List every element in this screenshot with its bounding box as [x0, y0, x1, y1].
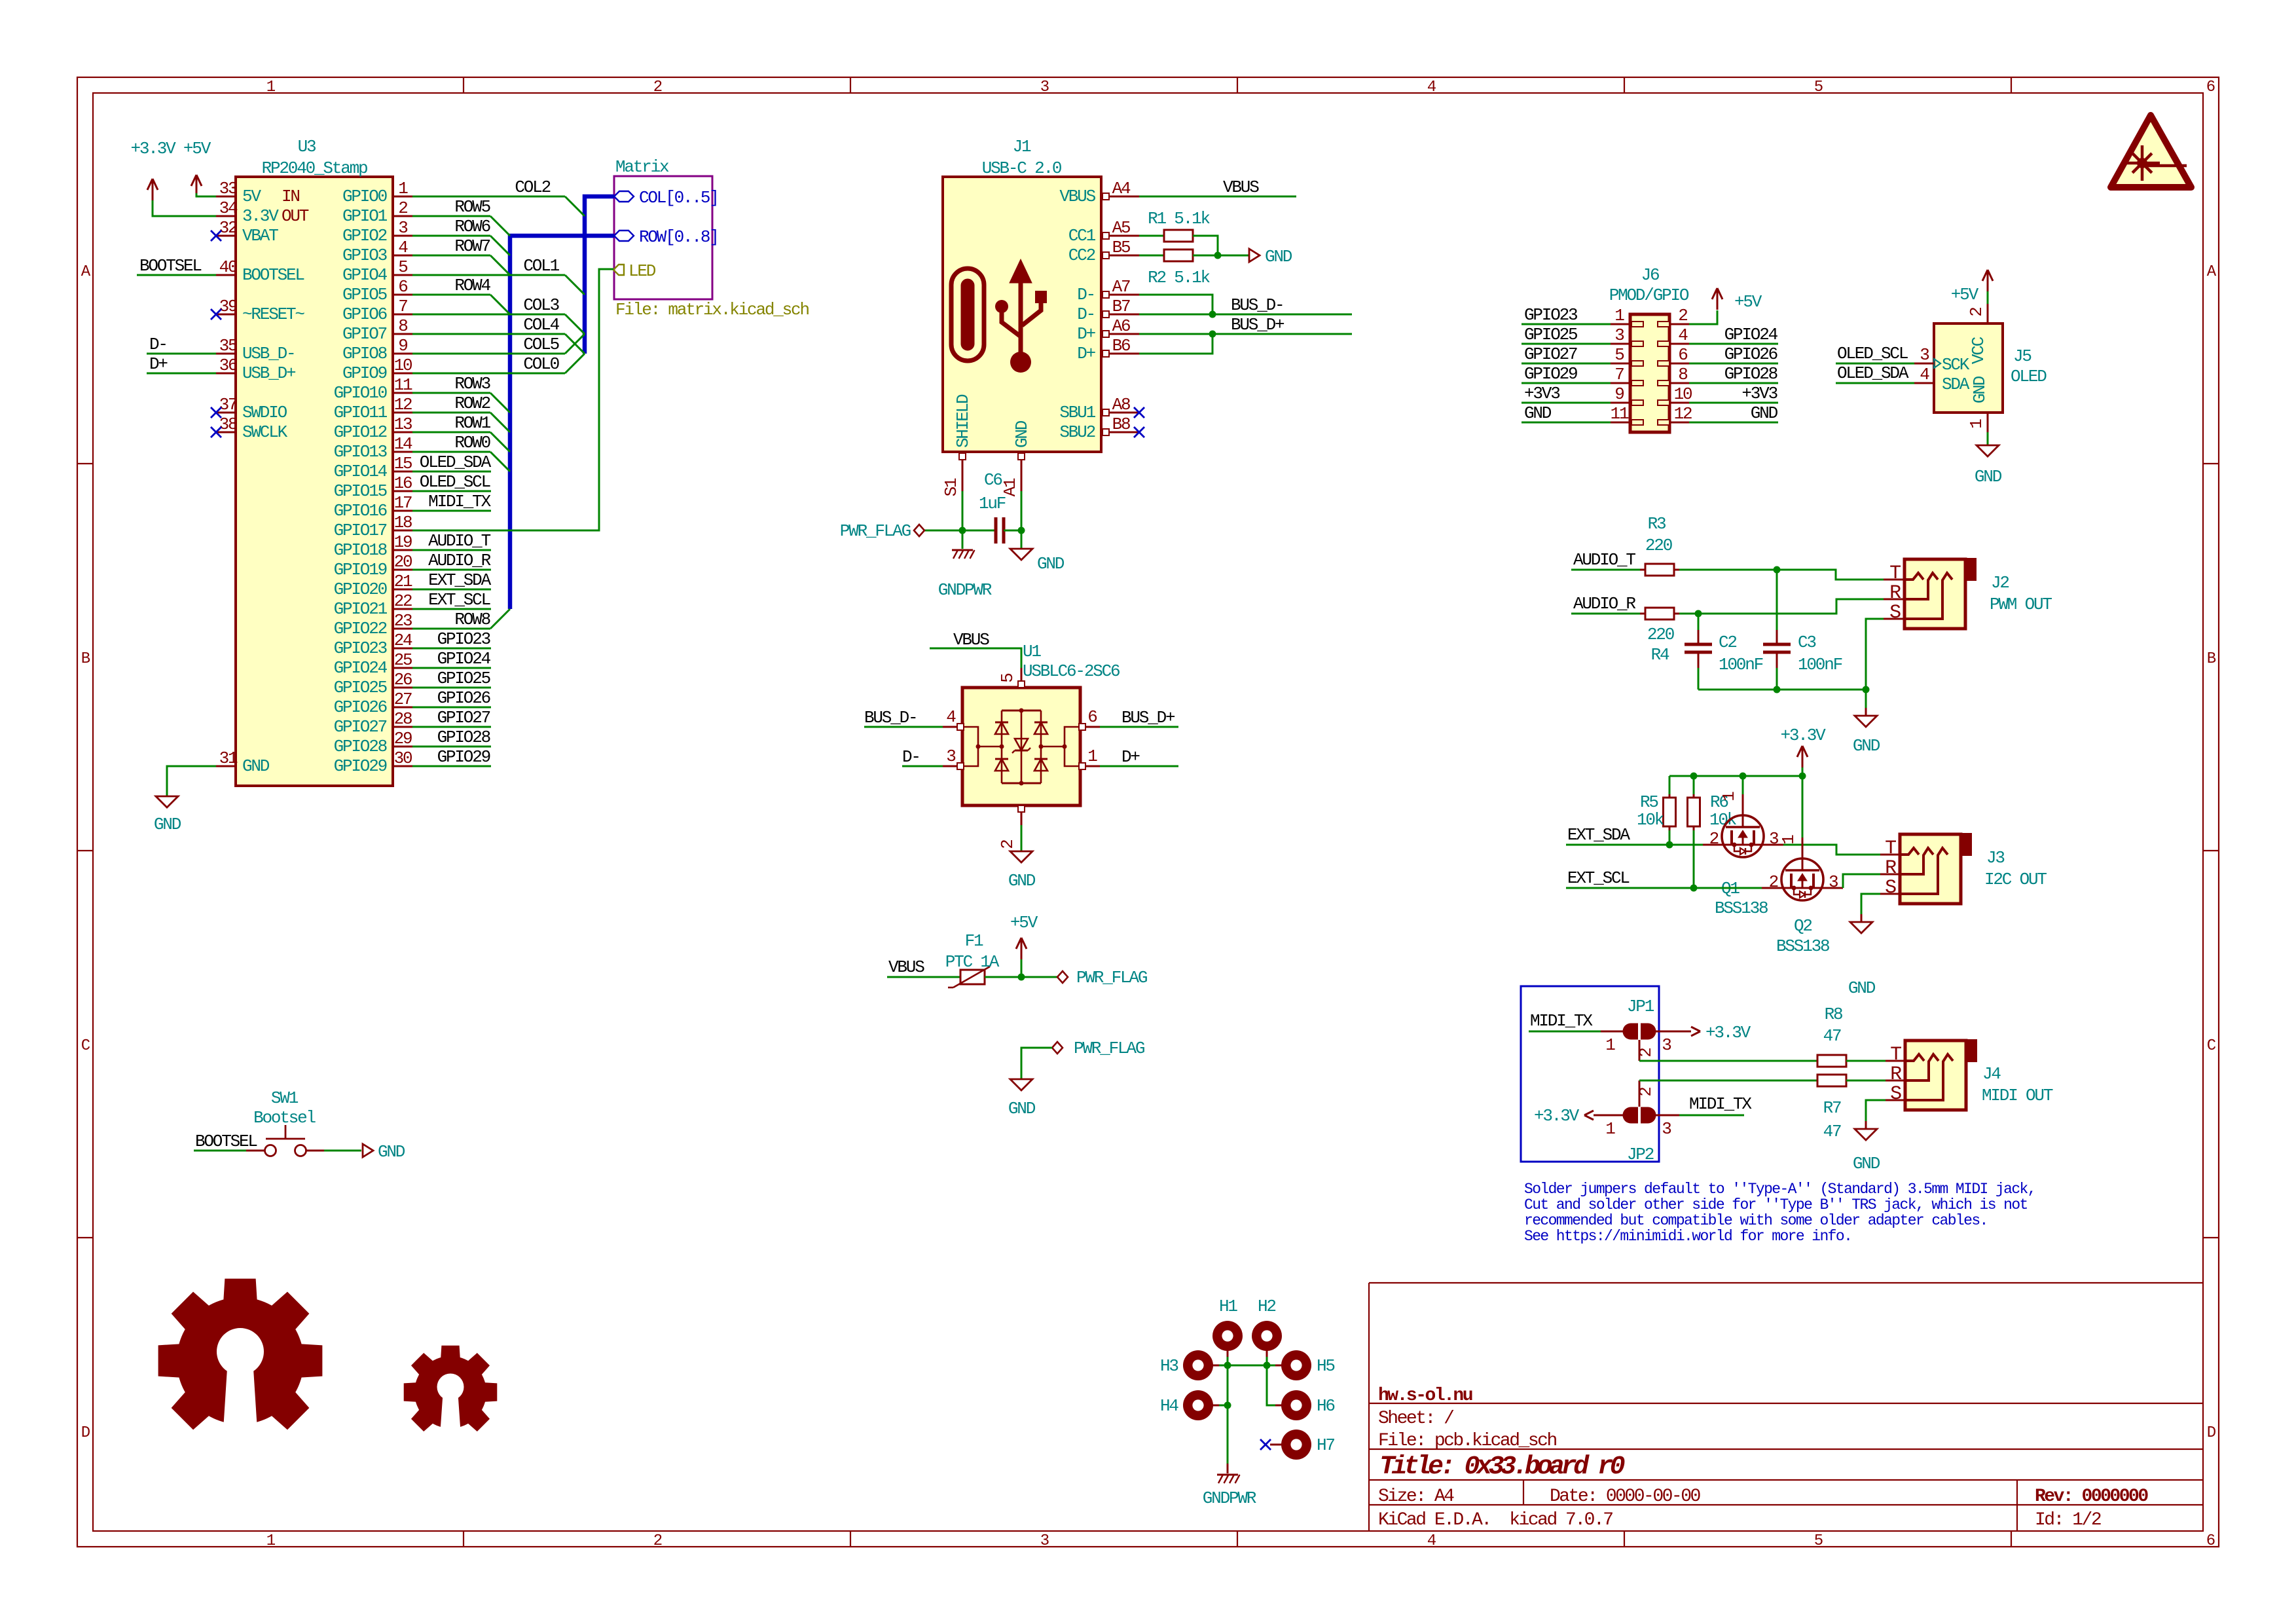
- svg-text:GND: GND: [242, 756, 270, 776]
- svg-text:33: 33: [219, 179, 237, 198]
- solder jumper JP1: [1601, 997, 1700, 1061]
- svg-text:D-: D-: [1077, 285, 1095, 304]
- svg-text:U1: U1: [1023, 642, 1041, 661]
- svg-text:PWR_FLAG: PWR_FLAG: [840, 521, 911, 541]
- svg-text:USBLC6-2SC6: USBLC6-2SC6: [1023, 661, 1120, 681]
- svg-text:R: R: [1885, 857, 1897, 879]
- svg-text:GND: GND: [1853, 1154, 1880, 1173]
- svg-text:GPIO23: GPIO23: [437, 629, 490, 649]
- wire EXT_SDA (U3 pin 21): [412, 570, 492, 590]
- svg-text:J2: J2: [1991, 573, 2009, 593]
- svg-text:F1: F1: [965, 931, 983, 951]
- junction rail Q1: [1740, 773, 1747, 780]
- svg-text:PMOD/GPIO: PMOD/GPIO: [1609, 286, 1689, 305]
- ground symbol GND (U3 pin 31): [154, 766, 216, 834]
- wire D+ from U1 pin 1: [1100, 747, 1178, 767]
- svg-text:GPIO3: GPIO3: [342, 246, 387, 265]
- svg-text:D+: D+: [1077, 344, 1095, 363]
- svg-text:AUDIO_R: AUDIO_R: [1573, 594, 1635, 614]
- power flag PWR_FLAG (GND): [1021, 1039, 1144, 1079]
- svg-text:GPIO27: GPIO27: [1524, 344, 1577, 364]
- svg-text:20: 20: [394, 552, 412, 572]
- svg-text:H2: H2: [1258, 1297, 1275, 1316]
- svg-text:ROW8: ROW8: [454, 610, 490, 629]
- svg-text:OLED_SDA: OLED_SDA: [420, 452, 492, 472]
- svg-text:1: 1: [1719, 792, 1739, 802]
- svg-text:BSS138: BSS138: [1715, 898, 1768, 918]
- svg-text:GPIO25: GPIO25: [437, 669, 490, 688]
- wire EXT_SCL to Q2: [1566, 868, 1781, 888]
- svg-text:35: 35: [219, 336, 237, 356]
- svg-text:Solder jumpers default to ''Ty: Solder jumpers default to ''Type-A'' (St…: [1524, 1181, 2035, 1198]
- svg-text:GPIO23: GPIO23: [1524, 305, 1577, 325]
- svg-text:SWDIO: SWDIO: [242, 403, 287, 422]
- svg-text:R: R: [1890, 1063, 1902, 1086]
- wire GPIO23 net label (U3 pin 24): [412, 629, 491, 649]
- svg-text:+5V: +5V: [183, 139, 211, 158]
- svg-text:25: 25: [394, 650, 412, 670]
- power symbol +5V (J5 VCC): [1951, 270, 1993, 304]
- svg-text:GPIO29: GPIO29: [437, 747, 490, 767]
- svg-text:GPIO1: GPIO1: [342, 206, 388, 226]
- svg-text:D+: D+: [1077, 324, 1095, 344]
- svg-text:GPIO28: GPIO28: [1724, 364, 1777, 384]
- svg-text:GND: GND: [1975, 467, 2002, 487]
- junction H2 rail: [1264, 1362, 1271, 1369]
- svg-text:+3.3V: +3.3V: [1534, 1106, 1580, 1126]
- svg-text:Date: 0000-00-00: Date: 0000-00-00: [1550, 1486, 1701, 1507]
- sheet pin LED: [613, 261, 656, 281]
- OSHW logo large gear: [158, 1279, 322, 1445]
- svg-text:GND: GND: [1751, 403, 1778, 423]
- svg-text:JP2: JP2: [1627, 1145, 1654, 1164]
- svg-text:USB_D+: USB_D+: [242, 363, 296, 383]
- no-connect SBU1: [1134, 407, 1144, 418]
- svg-text:D: D: [2207, 1424, 2216, 1442]
- mounting hole H5: [1275, 1350, 1334, 1380]
- svg-text:GPIO24: GPIO24: [334, 658, 388, 678]
- svg-text:GPIO22: GPIO22: [334, 619, 387, 638]
- svg-text:220: 220: [1647, 625, 1674, 644]
- wire OLED_SCL to J5: [1836, 344, 1914, 363]
- no-connect H7: [1260, 1439, 1271, 1450]
- svg-text:3: 3: [1040, 79, 1049, 96]
- svg-text:H5: H5: [1317, 1356, 1334, 1376]
- svg-text:24: 24: [394, 631, 412, 650]
- svg-text:Matrix: Matrix: [615, 157, 669, 177]
- svg-text:11: 11: [394, 375, 412, 395]
- svg-text:1uF: 1uF: [979, 494, 1006, 513]
- svg-text:2: 2: [998, 840, 1017, 849]
- J1 bottom pins S1 SHIELD and A1 GND: [941, 394, 1032, 496]
- wire COL2 with bus entry: [412, 177, 585, 216]
- junction SHIELD: [959, 527, 966, 534]
- svg-text:A7: A7: [1112, 277, 1130, 297]
- svg-text:BUS_D-: BUS_D-: [1231, 295, 1283, 315]
- power flag PWR_FLAG (shield): [840, 521, 962, 541]
- svg-text:OLED_SCL: OLED_SCL: [420, 472, 490, 492]
- svg-text:D-: D-: [1077, 304, 1095, 324]
- svg-text:B7: B7: [1112, 297, 1130, 316]
- svg-text:8: 8: [398, 316, 407, 336]
- J5 pins with numbers: [1914, 304, 1988, 432]
- fuse F1 PTC 1A: [887, 931, 1000, 987]
- wire COL1 with bus entry: [412, 256, 585, 295]
- svg-text:28: 28: [394, 709, 412, 729]
- svg-text:H1: H1: [1219, 1297, 1237, 1316]
- resistor R6 10k: [1688, 776, 1737, 888]
- svg-text:GPIO0: GPIO0: [342, 187, 387, 206]
- svg-text:+3V3: +3V3: [1741, 384, 1777, 403]
- svg-text:MIDI OUT: MIDI OUT: [1982, 1086, 2053, 1105]
- svg-text:Cut and solder other side for: Cut and solder other side for ''Type B''…: [1524, 1196, 2028, 1213]
- svg-text:36: 36: [219, 356, 237, 375]
- net label D- wire (U3 pin 35): [147, 335, 216, 354]
- svg-text:GND: GND: [1008, 871, 1036, 891]
- svg-text:3: 3: [398, 218, 407, 238]
- bus ROW[0..8]: [510, 236, 614, 609]
- svg-text:1: 1: [1605, 1035, 1615, 1055]
- svg-text:T: T: [1889, 563, 1901, 585]
- ground power symbol GNDPWR (J1 shield): [938, 530, 992, 600]
- svg-text:hw.s-ol.nu: hw.s-ol.nu: [1378, 1386, 1472, 1406]
- wire +3.3V to U3 pin 34: [153, 200, 216, 216]
- wire BUS_D+ from J1: [1139, 315, 1352, 354]
- svg-text:GND: GND: [154, 815, 181, 834]
- svg-text:GND: GND: [1008, 1099, 1036, 1118]
- wire AUDIO_T to J2 T: [1674, 570, 1884, 580]
- wire ROW6 with bus entry: [412, 217, 510, 255]
- svg-text:VBUS: VBUS: [953, 630, 989, 650]
- svg-text:AUDIO_R: AUDIO_R: [428, 551, 490, 570]
- wire JP1 to R8: [1639, 1060, 1817, 1062]
- svg-text:100nF: 100nF: [1798, 655, 1842, 674]
- wire AUDIO_R (U3 pin 20): [412, 551, 491, 570]
- ground symbol GND (SW1): [363, 1142, 405, 1162]
- wire R7 to J4 R: [1846, 1080, 1886, 1082]
- svg-text:17: 17: [394, 493, 412, 513]
- wire BUS_D- from J1: [1139, 295, 1352, 315]
- IC U1 USBLC6-2SC6 body: [962, 642, 1120, 805]
- svg-text:J1: J1: [1013, 137, 1031, 157]
- wire R8 to J4 T: [1846, 1060, 1886, 1062]
- svg-text:GND: GND: [1970, 376, 1990, 403]
- svg-text:2: 2: [1636, 1088, 1656, 1097]
- wire COL3 with bus entry: [412, 295, 585, 334]
- svg-text:29: 29: [394, 729, 412, 748]
- wire JP2 to R7: [1639, 1080, 1817, 1082]
- junction R5 EXT_SDA: [1666, 841, 1673, 849]
- svg-text:VBUS: VBUS: [1223, 177, 1259, 197]
- svg-text:22: 22: [394, 591, 412, 611]
- wire BUS_D- to U1 pin 4: [864, 708, 943, 728]
- svg-text:IN: IN: [282, 187, 299, 206]
- svg-text:38: 38: [219, 415, 237, 434]
- svg-text:Bootsel: Bootsel: [253, 1108, 316, 1128]
- wire COL5 with bus entry: [412, 334, 585, 354]
- wire GPIO27 net label (U3 pin 28): [412, 708, 491, 728]
- svg-text:GPIO18: GPIO18: [334, 540, 387, 560]
- wire MIDI_TX to JP1: [1529, 1011, 1601, 1031]
- connector J5 OLED body: [1934, 323, 2047, 413]
- solder jumper JP2: [1584, 1080, 1679, 1164]
- svg-text:GPIO12: GPIO12: [334, 422, 387, 442]
- svg-text:18: 18: [394, 513, 412, 532]
- svg-text:1: 1: [1779, 835, 1798, 845]
- svg-text:10: 10: [1674, 384, 1692, 404]
- J1 USB-C logo: [951, 259, 1047, 373]
- wire EXT_SDA to Q1: [1566, 825, 1722, 845]
- svg-text:R3: R3: [1648, 514, 1666, 534]
- wire GPIO28 net label (U3 pin 29): [412, 728, 491, 747]
- svg-text:Sheet: /: Sheet: /: [1378, 1409, 1454, 1429]
- junction BUS_D-: [1209, 311, 1216, 318]
- ground symbol GND (J4): [1853, 1100, 1886, 1173]
- note text about solder jumpers: [1524, 1181, 2035, 1245]
- svg-text:A8: A8: [1112, 395, 1130, 415]
- wire OLED_SCL (U3 pin 16): [412, 472, 491, 492]
- svg-text:D+: D+: [149, 354, 168, 374]
- svg-text:ROW3: ROW3: [454, 374, 490, 394]
- resistor R2 5.1k: [1139, 249, 1211, 287]
- svg-text:A5: A5: [1112, 218, 1130, 238]
- svg-text:34: 34: [219, 198, 238, 218]
- ground symbol GND (PWR_FLAG): [1008, 1079, 1036, 1118]
- svg-text:11: 11: [1611, 404, 1629, 424]
- connector J2 PWM OUT jack: [1884, 558, 2052, 629]
- junction rail R6: [1690, 773, 1698, 780]
- wire D- to U1 pin 3: [902, 747, 943, 767]
- svg-text:Size: A4: Size: A4: [1378, 1486, 1454, 1507]
- mounting hole H2: [1252, 1297, 1282, 1357]
- svg-text:COL0: COL0: [523, 354, 558, 374]
- svg-text:+5V: +5V: [1951, 285, 1979, 304]
- svg-text:GPIO26: GPIO26: [1724, 344, 1777, 364]
- svg-text:GPIO28: GPIO28: [334, 737, 387, 756]
- svg-text:VBAT: VBAT: [242, 226, 278, 246]
- svg-text:12: 12: [394, 395, 412, 415]
- svg-text:MIDI_TX: MIDI_TX: [1530, 1011, 1593, 1031]
- svg-text:GND: GND: [1848, 978, 1876, 998]
- svg-text:47: 47: [1823, 1026, 1841, 1046]
- graphic frame around solder jumpers: [1521, 986, 1659, 1162]
- J1 right pins with numbers and names: [1059, 179, 1139, 442]
- svg-text:USB_D-: USB_D-: [242, 344, 295, 363]
- svg-text:C6: C6: [984, 470, 1002, 490]
- svg-text:2: 2: [1769, 872, 1778, 892]
- mounting hole H6: [1275, 1390, 1334, 1420]
- power symbol +3.3V (JP1): [1705, 1023, 1751, 1043]
- no-connect pin 37 SWDIO: [211, 407, 221, 418]
- svg-text:5: 5: [398, 257, 407, 277]
- wire ROW5 with bus entry: [412, 197, 510, 236]
- svg-text:D: D: [81, 1424, 90, 1442]
- svg-text:+3V3: +3V3: [1524, 384, 1559, 403]
- svg-text:GPIO17: GPIO17: [334, 521, 387, 540]
- wire BOOTSEL to SW1: [194, 1132, 257, 1151]
- wire GPIO29 net label (U3 pin 30): [412, 747, 491, 767]
- junction H4 rail: [1224, 1402, 1231, 1409]
- svg-text:B5: B5: [1112, 238, 1130, 257]
- svg-text:KiCad E.D.A. kicad 7.0.7: KiCad E.D.A. kicad 7.0.7: [1378, 1510, 1613, 1530]
- wire GPIO25 net label (U3 pin 26): [412, 669, 491, 688]
- svg-text:U3: U3: [298, 137, 316, 157]
- wire OLED_SDA to J5: [1836, 363, 1914, 383]
- J6 left side wires with labels: [1522, 305, 1611, 423]
- transistor Q2 BSS138: [1769, 776, 1838, 956]
- wire COL4 with bus entry: [412, 315, 585, 354]
- svg-text:3: 3: [1920, 345, 1929, 365]
- wire Q1 to J3 T: [1764, 845, 1880, 855]
- svg-text:1: 1: [266, 1532, 276, 1550]
- svg-text:19: 19: [394, 532, 412, 552]
- svg-text:J5: J5: [2013, 346, 2031, 366]
- wire ground rail (J2 circuit): [1698, 619, 1884, 690]
- svg-text:EXT_SDA: EXT_SDA: [1567, 825, 1630, 845]
- wire AUDIO_T (U3 pin 19): [412, 531, 491, 551]
- svg-text:GPIO27: GPIO27: [334, 717, 387, 737]
- sheet pin ROW[0..8]: [614, 227, 718, 247]
- junction AUDIO_T / C3: [1774, 566, 1781, 574]
- svg-text:ROW4: ROW4: [454, 276, 490, 295]
- connector J1 USB-C 2.0 body: [943, 137, 1101, 452]
- svg-text:27: 27: [394, 690, 412, 709]
- svg-text:OUT: OUT: [282, 206, 309, 226]
- svg-text:4: 4: [1920, 365, 1929, 384]
- svg-text:5V: 5V: [242, 187, 261, 206]
- junction A1 GND: [1018, 527, 1025, 534]
- svg-text:3.3V: 3.3V: [242, 206, 279, 226]
- wire +3.3V rail (I2C): [1669, 775, 1802, 777]
- svg-text:GNDPWR: GNDPWR: [938, 580, 992, 600]
- wire ROW1 with bus entry: [412, 413, 510, 452]
- junction H1 rail: [1224, 1362, 1231, 1369]
- svg-text:GND: GND: [1265, 247, 1292, 267]
- resistor R4 220: [1571, 594, 1674, 665]
- svg-text:T: T: [1885, 838, 1896, 860]
- svg-text:30: 30: [394, 748, 412, 768]
- mounting hole H4: [1160, 1390, 1219, 1420]
- IC U3 RP2040_Stamp body: [236, 137, 393, 786]
- svg-text:B: B: [81, 650, 90, 668]
- svg-text:S: S: [1889, 602, 1901, 624]
- svg-text:1: 1: [1087, 747, 1097, 766]
- svg-text:31: 31: [219, 748, 238, 768]
- svg-text:GPIO13: GPIO13: [334, 442, 387, 462]
- wire COL0 with bus entry: [412, 354, 585, 374]
- svg-text:GPIO8: GPIO8: [342, 344, 387, 363]
- svg-text:T: T: [1890, 1044, 1901, 1066]
- resistor R8 47: [1817, 1005, 1846, 1067]
- svg-text:Rev: 0000000: Rev: 0000000: [2035, 1486, 2148, 1507]
- svg-text:GPIO25: GPIO25: [1524, 325, 1577, 344]
- svg-text:+3.3V: +3.3V: [1780, 726, 1826, 745]
- svg-text:3: 3: [1040, 1532, 1049, 1550]
- junction C3 rail: [1774, 686, 1781, 693]
- svg-text:ROW1: ROW1: [454, 413, 490, 433]
- mounting hole H1: [1212, 1297, 1243, 1357]
- svg-text:2: 2: [398, 198, 407, 218]
- svg-text:GPIO5: GPIO5: [342, 285, 387, 304]
- svg-text:File: pcb.kicad_sch: File: pcb.kicad_sch: [1378, 1431, 1556, 1451]
- svg-text:5: 5: [1814, 79, 1823, 96]
- svg-text:See https://minimidi.world for: See https://minimidi.world for more info…: [1524, 1228, 1851, 1245]
- wire SW1 to GND: [324, 1150, 361, 1152]
- svg-text:1: 1: [1614, 306, 1624, 325]
- wire GPIO24 net label (U3 pin 25): [412, 649, 491, 669]
- junction S rail: [1863, 686, 1870, 693]
- svg-text:SBU1: SBU1: [1059, 403, 1095, 422]
- resistor R1 5.1k: [1139, 209, 1211, 242]
- svg-text:1: 1: [1605, 1119, 1615, 1139]
- svg-text:USB-C 2.0: USB-C 2.0: [982, 158, 1061, 178]
- svg-text:Id: 1/2: Id: 1/2: [2035, 1510, 2101, 1530]
- junction CC GND: [1214, 252, 1222, 259]
- svg-text:GPIO25: GPIO25: [334, 678, 387, 697]
- svg-text:GPIO28: GPIO28: [437, 728, 490, 747]
- wire VBUS to U1 pin 5: [930, 630, 1021, 668]
- svg-text:SHIELD: SHIELD: [953, 394, 973, 448]
- svg-text:GPIO7: GPIO7: [342, 324, 387, 344]
- ground symbol GND (J1 A1): [1010, 549, 1065, 574]
- svg-text:Title: 0x33.board r0: Title: 0x33.board r0: [1379, 1452, 1625, 1482]
- mounting hole H3: [1160, 1350, 1219, 1380]
- svg-text:BOOTSEL: BOOTSEL: [139, 256, 201, 276]
- svg-text:ROW5: ROW5: [454, 197, 490, 217]
- wire +5V to U3 pin 33: [196, 193, 216, 196]
- wire GPIO17 to LED sheet pin: [412, 269, 613, 530]
- svg-text:GPIO19: GPIO19: [334, 560, 387, 580]
- svg-text:10: 10: [394, 356, 412, 375]
- svg-text:AUDIO_T: AUDIO_T: [428, 531, 490, 551]
- wire BUS_D+ from U1 pin 6: [1100, 708, 1178, 728]
- svg-text:8: 8: [1678, 365, 1687, 384]
- wire ROW7 with bus entry: [412, 236, 510, 275]
- svg-text:ROW0: ROW0: [454, 433, 490, 452]
- svg-text:BOOTSEL: BOOTSEL: [242, 265, 304, 285]
- capacitor C3 100nF: [1763, 570, 1842, 690]
- power symbol +5V (J6 pin 2): [1689, 288, 1762, 324]
- svg-text:5: 5: [1814, 1532, 1823, 1550]
- wire F1 to PWR_FLAG: [985, 976, 1057, 978]
- wire ROW2 with bus entry: [412, 394, 510, 432]
- svg-text:16: 16: [394, 473, 412, 493]
- ground symbol GND (J5 pin 1): [1975, 432, 2002, 487]
- resistor R5 10k: [1637, 776, 1676, 845]
- svg-text:A6: A6: [1112, 316, 1130, 336]
- svg-text:BUS_D-: BUS_D-: [864, 708, 917, 728]
- junction rail +3.3V: [1799, 773, 1806, 780]
- svg-text:CC2: CC2: [1068, 246, 1095, 265]
- svg-text:GPIO16: GPIO16: [334, 501, 387, 521]
- ground symbol GND (J2): [1853, 690, 1880, 756]
- power symbol +3.3V (I2C pullups): [1780, 726, 1826, 776]
- svg-text:4: 4: [1427, 79, 1436, 96]
- svg-text:2: 2: [653, 79, 662, 96]
- wire GPIO26 net label (U3 pin 27): [412, 688, 491, 708]
- capacitor C6 1uF: [979, 470, 1006, 544]
- svg-text:7: 7: [398, 297, 407, 316]
- junction R6 EXT_SCL: [1690, 885, 1698, 892]
- svg-text:15: 15: [394, 454, 412, 473]
- svg-text:26: 26: [394, 670, 412, 690]
- switch SW1 Bootsel: [246, 1088, 324, 1156]
- svg-text:R4: R4: [1651, 645, 1669, 665]
- svg-text:6: 6: [1087, 707, 1097, 727]
- resistor R3 220: [1571, 514, 1674, 576]
- svg-text:4: 4: [1427, 1532, 1436, 1550]
- power flag PWR_FLAG (VBUS): [1057, 968, 1147, 987]
